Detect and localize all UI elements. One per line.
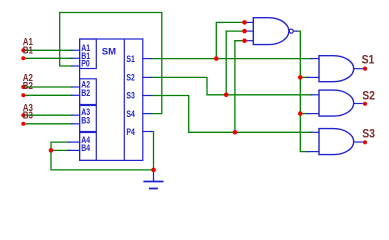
AND gate U4 input stub B [307,151,319,153]
AND gate U3 input stub B [307,113,319,115]
wire S3 net [152,96,312,133]
wire A4B4 down to ground rail [51,150,154,170]
wire NAND output down to AND gates [297,31,309,152]
AND gate U3 output stub [354,103,363,105]
pin stub B4 [68,149,80,151]
pin stub B1 [72,57,80,59]
junction dot NAND input 2 [242,29,247,34]
junction dot ground node [151,168,156,173]
AND gate U3 input stub A [311,94,319,96]
wire NAND output to U2 input B [300,76,308,78]
pin stub P0 [72,65,80,67]
wire P4 to ground rail [152,132,154,170]
junction dot S1/NAND riser [214,56,219,61]
pin stub P4 [143,131,152,133]
pin stub S1 [143,58,152,60]
pin stub B3 [72,123,80,125]
AND gate U3 body [319,90,354,116]
wire S1 riser to NAND input 1 [216,22,244,58]
pin stub S2 [143,76,152,78]
pin stub A1 [72,49,80,51]
NAND pin stub input 2 [245,30,254,32]
AND gate U2 body [319,56,354,82]
terminal dot B1 [21,56,25,60]
svg-text:B2: B2 [23,80,33,91]
pin stub A2 [72,86,80,88]
wire S2 riser to NAND input 2 [226,31,244,95]
terminal dot S1 output [363,67,367,71]
AND gate U2 output stub [354,68,363,70]
AND gate U4 body [319,129,354,155]
wire NAND output to U3 input B [300,113,308,115]
terminal dot A1 [21,48,25,52]
terminal dot B2 [21,93,25,97]
wire B3 terminal to module [24,123,73,125]
junction dot NAND input 1 [242,20,247,25]
svg-text:S3: S3 [362,128,375,141]
NAND pin stub output [293,30,297,32]
svg-text:SM: SM [102,46,116,57]
AND gate U4 input stub A [311,131,319,133]
svg-text:B2: B2 [81,87,90,98]
pin stub S3 [143,95,152,97]
wire P0 to top rail to S4 [60,13,162,114]
pin stub A3 [72,114,80,116]
wire A4 pin loop [51,142,70,150]
NAND pin stub input 1 [245,21,254,23]
junction dot A4/B4 tie [49,148,54,153]
module U1 pin group box A2 B2 [80,79,97,105]
svg-text:B1: B1 [23,44,33,55]
wire B2 terminal to module [24,94,73,96]
ground symbol [153,170,155,181]
junction dot U3 input B [298,111,303,116]
svg-text:S4: S4 [126,108,135,119]
svg-text:S1: S1 [126,53,135,64]
svg-text:B3: B3 [81,114,90,125]
junction dot NAND input 3 [242,38,247,43]
wire S1 net [152,58,312,60]
pin stub B2 [72,94,80,96]
junction dot S2/NAND riser [224,93,229,98]
wire B1 terminal to module [24,57,73,59]
pin stub A4 [68,141,80,143]
terminal dot A2 [21,85,25,89]
AND gate U2 input stub B [307,76,319,78]
junction dot S3/NAND riser [233,130,238,135]
module U1 outer body [80,39,143,160]
svg-text:B4: B4 [81,142,90,153]
module U1 pin group box A1 B1 P0 [80,39,97,69]
NAND pin stub input 3 [245,40,254,42]
svg-text:P0: P0 [81,57,90,68]
wire A2 terminal to module [24,86,73,88]
AND gate U2 input stub A [311,58,319,60]
pin stub S4 [143,113,152,115]
svg-text:S2: S2 [126,71,135,82]
NAND gate U5 output bubble [289,29,293,33]
svg-text:B3: B3 [23,110,33,121]
module U1 pin group box A3 B3 [80,106,97,132]
wire S2 net [152,77,312,94]
terminal dot S2 output [363,102,367,106]
svg-text:S1: S1 [362,54,375,67]
svg-text:S3: S3 [126,90,135,101]
module U1 pin group box A4 B4 [80,133,97,161]
AND gate U4 output stub [354,141,363,143]
terminal dot S3 output [363,140,367,144]
svg-text:S2: S2 [362,90,375,103]
wire A1 terminal to module [24,49,73,51]
NAND gate U5 body [253,18,289,45]
module U1 right pin column divider [123,39,125,160]
wire S3 riser to NAND input 3 [235,41,245,133]
svg-text:P4: P4 [126,126,135,137]
terminal dot A3 [21,113,25,117]
terminal dot B3 [21,122,25,126]
junction dot U2 input B [298,75,303,80]
wire A3 terminal to module [24,114,73,116]
wire B4 pin [51,149,70,151]
